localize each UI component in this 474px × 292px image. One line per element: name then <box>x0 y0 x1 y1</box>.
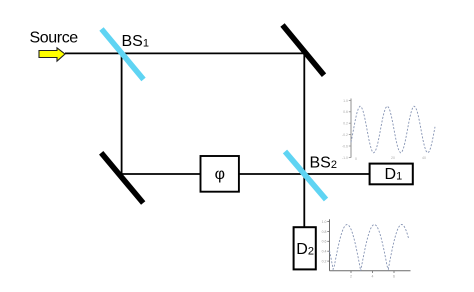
svg-text:6: 6 <box>393 275 395 279</box>
plot2 y tick labels <box>322 220 327 264</box>
phase shifter box <box>201 156 239 192</box>
beam splitter BS2 <box>285 152 326 200</box>
mirror top-right <box>283 25 325 75</box>
svg-text:2: 2 <box>350 275 352 279</box>
plot2 x ticks <box>351 271 394 273</box>
svg-text:0.4: 0.4 <box>322 250 327 254</box>
plot1 sine curve <box>351 106 435 153</box>
detector D1 box <box>370 164 413 185</box>
svg-text:20: 20 <box>391 156 395 160</box>
wire left vertical <box>121 53 123 174</box>
plot2 y ticks <box>327 222 329 262</box>
mirror bottom-left <box>101 153 143 203</box>
plot1 y tick labels <box>342 99 348 160</box>
svg-text:-0.2: -0.2 <box>342 133 348 137</box>
plot1 y ticks <box>349 100 351 157</box>
wire top horizontal <box>65 52 304 54</box>
wire to D1 <box>304 173 369 175</box>
detector D2 box <box>294 227 316 269</box>
plot2 x tick labels <box>350 275 395 279</box>
svg-text:40: 40 <box>422 156 426 160</box>
svg-text:0.2: 0.2 <box>322 260 327 264</box>
svg-text:Source: Source <box>30 29 79 46</box>
wire bottom middle segment <box>239 173 304 175</box>
plot1 x tick labels <box>355 156 426 161</box>
svg-text:4: 4 <box>372 275 374 279</box>
beam splitter BS1 <box>102 29 144 79</box>
svg-text:0.2: 0.2 <box>343 122 348 126</box>
svg-text:0.8: 0.8 <box>322 230 327 234</box>
svg-text:-0.6: -0.6 <box>342 144 348 148</box>
svg-text:φ: φ <box>215 166 225 183</box>
plot2 intensity curve <box>330 225 409 271</box>
svg-text:0.6: 0.6 <box>322 240 327 244</box>
svg-text:-1.0: -1.0 <box>342 156 348 160</box>
plot2 x-axis <box>330 270 411 272</box>
svg-text:0: 0 <box>355 157 357 161</box>
svg-text:1.0: 1.0 <box>343 99 348 103</box>
svg-text:0.6: 0.6 <box>343 110 348 114</box>
source arrow <box>39 48 65 61</box>
plot2 y-axis <box>329 219 331 270</box>
wire bottom left segment <box>122 173 201 175</box>
wire right vertical <box>303 53 305 227</box>
svg-text:1.0: 1.0 <box>322 220 327 224</box>
plot1 y-axis <box>350 99 352 158</box>
